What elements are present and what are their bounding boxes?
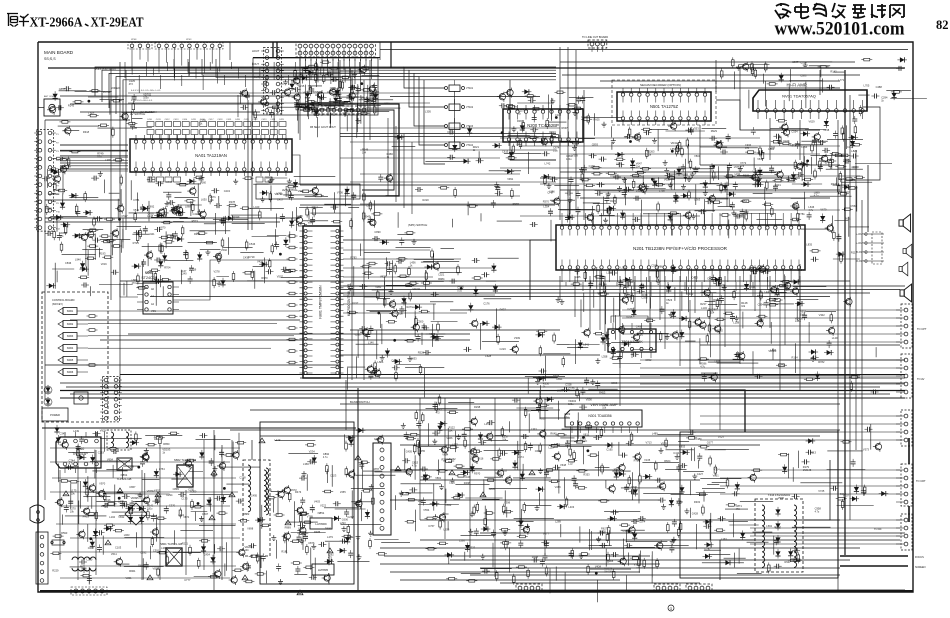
svg-text:C518: C518	[396, 312, 403, 316]
svg-text:C554: C554	[791, 130, 798, 134]
svg-text:R692: R692	[138, 564, 145, 568]
svg-text:V713: V713	[646, 441, 653, 445]
svg-text:V364: V364	[714, 467, 721, 471]
svg-text:L946: L946	[75, 258, 81, 262]
svg-text:C411: C411	[673, 451, 680, 455]
svg-text:V789: V789	[307, 515, 314, 519]
svg-text:V603: V603	[298, 189, 305, 193]
wire flyback leads	[803, 460, 830, 520]
svg-text:V429: V429	[257, 260, 264, 264]
speaker BL2	[903, 244, 912, 258]
optocoupler N862 TLP621-GB	[177, 465, 193, 487]
svg-text:R783: R783	[350, 256, 357, 260]
svg-text:L800: L800	[353, 95, 359, 99]
svg-text:AV SWITCH: AV SWITCH	[140, 110, 156, 114]
svg-text:L517: L517	[772, 288, 778, 292]
svg-text:V616: V616	[757, 157, 764, 161]
wire vertical-amp feeds	[540, 390, 570, 418]
svg-text:C454: C454	[204, 553, 211, 557]
svg-text:C294: C294	[166, 493, 173, 497]
svg-text:L489: L489	[652, 432, 658, 436]
svg-text:L117: L117	[568, 462, 574, 466]
svg-text:C791: C791	[188, 487, 195, 491]
wire bus upper pair y374-378	[120, 374, 905, 376]
component cluster right of micro far	[472, 258, 480, 263]
svg-text:R298: R298	[474, 405, 481, 409]
svg-text:C844: C844	[624, 135, 631, 139]
IR receiver U01	[74, 392, 88, 404]
svg-text:C103: C103	[115, 546, 122, 550]
svg-text:V425: V425	[614, 467, 621, 471]
svg-text:L592: L592	[766, 524, 772, 528]
svg-text:L455: L455	[419, 449, 425, 453]
svg-text:L686: L686	[378, 360, 384, 364]
svg-text:R850: R850	[163, 442, 170, 446]
svg-text:XT-2966A: XT-2966A	[30, 16, 84, 31]
svg-text:C719: C719	[248, 255, 255, 259]
wire filter chain vertical link	[454, 91, 456, 142]
svg-text:L986: L986	[418, 499, 424, 503]
wire extra horizontals centre (x=340-560)	[340, 128, 560, 204]
svg-text:C219: C219	[190, 268, 197, 272]
component cluster left edge lower	[80, 261, 85, 271]
svg-text:L129: L129	[832, 336, 838, 340]
svg-text:R697: R697	[562, 126, 569, 130]
svg-text:L860: L860	[768, 147, 774, 151]
component cluster relay/posistor bottom	[788, 559, 799, 562]
sub-block outline: bottom right box	[680, 432, 838, 578]
svg-text:C405: C405	[406, 450, 413, 454]
svg-text:V111: V111	[384, 101, 390, 105]
svg-text:(SW:KEY): (SW:KEY)	[52, 303, 63, 306]
svg-text:L365: L365	[105, 158, 111, 162]
svg-text:C424: C424	[270, 119, 276, 121]
svg-text:C495: C495	[251, 493, 258, 497]
svg-text:R929: R929	[711, 129, 718, 133]
component cluster far right column	[849, 376, 860, 379]
component cluster degauss posistor	[836, 497, 847, 500]
svg-text:C415: C415	[191, 119, 197, 121]
svg-text:L531: L531	[118, 499, 124, 503]
svg-text:R686: R686	[325, 527, 332, 531]
svg-text:L553: L553	[670, 147, 676, 151]
svg-text:R366: R366	[517, 119, 524, 123]
connector XS10 left edge (dual column)	[37, 130, 54, 232]
svg-text:C234: C234	[797, 268, 804, 272]
svg-text:104: 104	[636, 165, 641, 168]
wire horizontal rails (middle section)	[45, 310, 905, 410]
svg-text:R351: R351	[741, 199, 748, 203]
svg-text:C413: C413	[173, 119, 179, 121]
svg-text:C355: C355	[641, 296, 648, 300]
svg-text:C878: C878	[373, 467, 380, 471]
svg-text:R526: R526	[418, 350, 425, 354]
svg-text:V870: V870	[159, 226, 166, 230]
wire N602 links	[120, 283, 138, 297]
svg-text:L215: L215	[299, 84, 305, 88]
svg-text:C546: C546	[249, 242, 256, 246]
svg-text:V590: V590	[525, 408, 532, 412]
svg-text:L742: L742	[545, 161, 551, 165]
svg-text:V832: V832	[118, 515, 125, 519]
label box band above N401 (two rows)	[147, 122, 154, 127]
svg-text:R483: R483	[610, 199, 617, 203]
svg-text:R640: R640	[550, 431, 557, 435]
svg-text:V831: V831	[694, 154, 701, 158]
wire heavy vertical pair top AV	[273, 42, 277, 58]
svg-text:V629: V629	[809, 119, 816, 123]
svg-text:TO LINE OUT BOARD: TO LINE OUT BOARD	[582, 35, 608, 39]
svg-text:TO AV: TO AV	[917, 377, 925, 381]
svg-text:R882: R882	[243, 512, 250, 516]
svg-text:C410: C410	[147, 119, 153, 121]
svg-text:V373: V373	[863, 448, 870, 452]
wire leads to XS203 connector	[700, 416, 900, 440]
svg-text:R353: R353	[583, 472, 590, 476]
svg-text:V556: V556	[586, 398, 593, 402]
svg-text:SW01: SW01	[67, 310, 74, 313]
wire heavy drop x391	[390, 42, 392, 68]
component cluster PSU secondary	[164, 506, 169, 514]
resistors right of buttons	[87, 315, 98, 318]
svg-text:R808: R808	[757, 294, 764, 298]
svg-text:L158: L158	[733, 320, 739, 324]
svg-text:XT-29EAT: XT-29EAT	[91, 16, 145, 31]
component cluster left column 230-290	[154, 227, 162, 232]
wire degauss path	[391, 430, 420, 470]
svg-text:R704: R704	[164, 266, 171, 270]
svg-text:HOUT: HOUT	[252, 49, 260, 53]
connector XS02 (dashed, below AV transistors)	[312, 106, 368, 114]
svg-text:473: 473	[436, 411, 441, 414]
svg-text:L264: L264	[753, 169, 759, 173]
svg-text:V278: V278	[214, 269, 221, 273]
svg-text:V266: V266	[354, 333, 361, 337]
svg-text:C614: C614	[838, 177, 845, 181]
svg-text:R220: R220	[423, 198, 430, 202]
svg-text:L250: L250	[298, 527, 304, 531]
wire heavy vertical x358	[357, 388, 359, 590]
svg-text:N801 TMP87CM38N: N801 TMP87CM38N	[319, 285, 323, 319]
svg-text:C328: C328	[565, 383, 572, 387]
svg-text:L354: L354	[543, 205, 549, 209]
svg-text:L381: L381	[161, 546, 167, 550]
svg-text:R997: R997	[785, 560, 792, 564]
svg-text:LM7805: LM7805	[318, 568, 329, 572]
svg-text:C420: C420	[235, 119, 241, 121]
wire vertical rails (left)	[45, 42, 380, 590]
svg-text:TO CRT: TO CRT	[916, 479, 926, 483]
svg-text:C370: C370	[169, 504, 176, 508]
PSU section top border	[42, 427, 356, 429]
diode VD202 left of Z201	[600, 335, 605, 345]
bottom connector XS853	[686, 584, 712, 592]
svg-text:R370: R370	[543, 200, 550, 204]
svg-text:SCREEN: SCREEN	[915, 566, 926, 569]
svg-text:C894: C894	[758, 303, 765, 307]
svg-text:L528: L528	[485, 354, 491, 358]
component cluster N200 surroundings	[572, 145, 577, 150]
svg-text:SW05: SW05	[67, 359, 74, 362]
svg-text:POWER: POWER	[50, 413, 60, 417]
svg-text:L366: L366	[303, 462, 309, 466]
svg-text:V929: V929	[100, 429, 107, 433]
svg-text:SW02: SW02	[67, 323, 74, 326]
svg-text:473: 473	[132, 282, 137, 285]
svg-text:VD995: VD995	[131, 496, 139, 500]
bottom connector XS852	[654, 584, 680, 592]
svg-text:VOLS VOUT ROUT: VOLS VOUT ROUT	[95, 68, 117, 71]
svg-text:N862 TLP621-GB: N862 TLP621-GB	[174, 458, 196, 462]
IC N801 TMP87CM38N microcontroller (vertical)	[303, 226, 340, 378]
svg-text:(SPK) SWITCH: (SPK) SWITCH	[408, 223, 427, 227]
optocoupler N861 TLP621-GB	[117, 458, 132, 470]
svg-text:L465: L465	[575, 275, 581, 279]
svg-text:L444: L444	[516, 143, 522, 147]
svg-text:473: 473	[745, 147, 750, 150]
svg-text:C486: C486	[657, 265, 664, 269]
svg-text:V154: V154	[668, 177, 675, 181]
wire verticals right of centre	[560, 47, 862, 590]
buttons SW01-SW06	[58, 308, 63, 314]
svg-text:C615: C615	[502, 149, 509, 153]
wire leads to AV connector	[640, 360, 900, 384]
svg-text:R196: R196	[104, 498, 111, 502]
svg-text:4.7u: 4.7u	[323, 456, 328, 459]
svg-text:4.7u: 4.7u	[814, 195, 819, 198]
svg-text:C677: C677	[707, 441, 714, 445]
svg-text:VT401: VT401	[466, 87, 474, 90]
wire heavy top rail	[48, 67, 905, 69]
svg-text:VD741: VD741	[413, 287, 421, 291]
hot ground symbols in power section	[63, 491, 69, 496]
svg-text:C488: C488	[876, 85, 883, 89]
svg-text:V725: V725	[818, 489, 825, 493]
bottom-left connector XS861	[74, 589, 78, 593]
svg-text:VD183: VD183	[768, 349, 776, 353]
svg-text:L835: L835	[806, 242, 812, 246]
wire elbows upper right	[716, 100, 820, 130]
AC input connector X860	[36, 532, 48, 584]
svg-text:C443: C443	[224, 189, 231, 193]
svg-text:V507: V507	[277, 275, 284, 279]
svg-text:473: 473	[448, 461, 453, 464]
svg-text:C910: C910	[449, 481, 456, 485]
svg-text:C232: C232	[347, 515, 354, 519]
banner 家电维修资料网 (stylized strokes)	[775, 3, 904, 19]
svg-text:100u: 100u	[147, 507, 153, 510]
svg-text:FB SELF GOUT ROUT: FB SELF GOUT ROUT	[310, 126, 336, 129]
wire elbows left/mid	[530, 240, 556, 300]
svg-text:C523: C523	[330, 473, 337, 477]
connector CN805 (vertical single column)	[373, 443, 391, 535]
svg-text:www.520101.com: www.520101.com	[775, 19, 905, 40]
svg-text:R303: R303	[694, 500, 701, 504]
svg-text:C867: C867	[129, 485, 136, 489]
svg-text:L941: L941	[149, 232, 155, 236]
wire heavy edge column segments	[908, 438, 910, 522]
component cluster left mid	[69, 193, 79, 198]
IC N501 TA1275Z SECAM decoder (dashed option box)	[612, 80, 716, 125]
svg-text:VD903: VD903	[795, 317, 803, 321]
circled G mark	[668, 605, 674, 611]
svg-text:V683: V683	[851, 165, 858, 169]
title 华 (stylized)	[19, 14, 29, 27]
fuse F861	[52, 540, 64, 545]
svg-text:C521: C521	[438, 272, 445, 276]
svg-text:N801 TLP621-GB: N801 TLP621-GB	[160, 542, 182, 546]
IC N401 TA1219AN video chroma deflection	[130, 139, 292, 172]
svg-text:4.7u: 4.7u	[412, 465, 417, 468]
svg-text:473: 473	[129, 83, 134, 86]
svg-text:V648: V648	[560, 463, 567, 467]
svg-text:L293: L293	[340, 521, 346, 525]
svg-text:R193: R193	[99, 252, 106, 256]
component cluster vertical amp underside	[620, 453, 628, 458]
svg-text:C219: C219	[98, 450, 105, 454]
svg-text:V553: V553	[693, 127, 700, 131]
svg-text:L542: L542	[779, 362, 785, 366]
SMPS transformer T861 (dashed box with windings)	[243, 460, 270, 556]
svg-text:C853: C853	[679, 444, 686, 448]
svg-text:TLP621-GB: TLP621-GB	[117, 477, 132, 481]
svg-text:R683: R683	[617, 349, 624, 353]
svg-text:VD832: VD832	[147, 489, 155, 493]
svg-text:R593: R593	[61, 531, 68, 535]
svg-text:C500: C500	[417, 319, 424, 323]
svg-text:L440: L440	[764, 290, 770, 294]
svg-text:C411: C411	[156, 119, 162, 121]
svg-text:SW04: SW04	[67, 347, 74, 350]
svg-text:V747: V747	[166, 180, 173, 184]
secondary winding coil left of regulator box	[266, 468, 269, 515]
svg-text:V449: V449	[464, 475, 471, 479]
svg-text:L479: L479	[297, 214, 303, 218]
svg-text:L824: L824	[851, 149, 857, 153]
svg-text:L331: L331	[531, 427, 537, 431]
svg-text:C768: C768	[239, 476, 246, 480]
svg-text:L630: L630	[201, 198, 207, 202]
svg-text:V966: V966	[446, 436, 453, 440]
svg-text:L358: L358	[602, 355, 608, 359]
svg-text:R573: R573	[192, 219, 199, 223]
svg-text:V429: V429	[783, 139, 790, 143]
svg-text:L134: L134	[701, 306, 707, 310]
component cluster hifi underside	[854, 124, 857, 135]
svg-text:V996: V996	[778, 496, 785, 500]
svg-text:L579: L579	[784, 288, 790, 292]
svg-text:L224: L224	[549, 446, 555, 450]
svg-text:V692: V692	[221, 248, 228, 252]
svg-text:R237: R237	[700, 302, 707, 306]
svg-text:V208: V208	[790, 144, 797, 148]
svg-text:R113: R113	[810, 451, 817, 455]
speaker BL4	[900, 284, 912, 302]
svg-text:V234: V234	[309, 449, 316, 453]
svg-text:100u: 100u	[566, 158, 572, 161]
svg-text:L923: L923	[582, 115, 588, 119]
svg-text:C667: C667	[202, 512, 209, 516]
sub-block outline: AV switch box below N401	[256, 184, 360, 199]
svg-text:C791: C791	[266, 488, 273, 492]
svg-text:L963: L963	[124, 533, 130, 537]
svg-text:R651: R651	[845, 216, 852, 220]
svg-text:V317: V317	[352, 301, 359, 305]
svg-text:V871: V871	[183, 515, 190, 519]
svg-text:VD793: VD793	[275, 192, 283, 196]
svg-text:R117: R117	[851, 250, 858, 254]
svg-text:104: 104	[800, 313, 805, 316]
svg-text:104: 104	[362, 151, 367, 154]
wire stub drops from top rails	[125, 62, 359, 93]
svg-text:4.7u: 4.7u	[128, 512, 133, 515]
svg-text:VT403: VT403	[466, 125, 474, 128]
wire extra horizontals centre-right (y=130-220)	[500, 138, 860, 216]
svg-text:R292: R292	[194, 232, 201, 236]
svg-text:L363: L363	[550, 175, 556, 179]
svg-text:L449: L449	[73, 429, 79, 433]
svg-text:C173: C173	[181, 497, 188, 501]
svg-text:SECAM DECODER (OPTION): SECAM DECODER (OPTION)	[640, 83, 681, 87]
component cluster PSU mid	[369, 538, 372, 549]
svg-text:V171: V171	[800, 162, 807, 166]
wire left column to PSU	[44, 422, 46, 500]
svg-text:XP03: XP03	[186, 39, 192, 41]
wire drops from XP03/XS06 elbows	[174, 59, 340, 70]
svg-text:L978: L978	[616, 161, 622, 165]
LED VD01	[45, 385, 50, 395]
component cluster PSU primary	[56, 435, 61, 445]
svg-text:V434: V434	[595, 564, 602, 568]
component cluster between secam and N201	[744, 209, 749, 214]
svg-text:N301 TDA8356: N301 TDA8356	[588, 414, 611, 418]
svg-text:R682: R682	[319, 107, 326, 111]
connector X801 keyboard (top, 2 rows)	[296, 42, 376, 57]
svg-text:100u: 100u	[568, 403, 574, 406]
svg-text:CONTROL BOARD: CONTROL BOARD	[52, 298, 75, 302]
svg-text:4-4.5 5.5- 6.0- 6.5+ BG+ L-4.5: 4-4.5 5.5- 6.0- 6.5+ BG+ L-4.5	[131, 90, 161, 92]
svg-text:C560: C560	[851, 204, 858, 208]
speaker BL1	[899, 214, 911, 232]
svg-text:C966: C966	[611, 381, 618, 385]
wire nested elbow buses centre (tuner to AV switch)	[404, 67, 556, 88]
wire verticals mid-right lower	[530, 240, 800, 430]
degauss coil L860	[72, 557, 96, 560]
component cluster AV transistor block	[326, 106, 337, 109]
svg-text:104: 104	[710, 312, 715, 315]
svg-text:C176: C176	[483, 301, 490, 305]
svg-text:L536: L536	[459, 538, 465, 542]
svg-text:1N4148: 1N4148	[803, 469, 812, 472]
svg-text:V736: V736	[337, 191, 344, 195]
svg-text:C425: C425	[279, 119, 285, 121]
svg-text:C383: C383	[800, 73, 807, 77]
svg-text:R349: R349	[233, 215, 240, 219]
wire leads to CRT connector	[720, 470, 900, 494]
svg-text:V554: V554	[423, 508, 430, 512]
svg-text:473: 473	[442, 516, 447, 519]
antenna input can W01	[44, 99, 60, 116]
LED VD02	[45, 397, 50, 407]
svg-text:0.1u: 0.1u	[457, 290, 462, 293]
svg-text:L574: L574	[518, 455, 524, 459]
svg-text:V315: V315	[626, 315, 633, 319]
svg-text:V302: V302	[819, 313, 826, 317]
svg-text:V727: V727	[718, 435, 725, 439]
svg-text:SW03: SW03	[67, 335, 74, 338]
svg-text:R453: R453	[599, 390, 606, 394]
regulator N851 LA78009	[310, 518, 332, 529]
